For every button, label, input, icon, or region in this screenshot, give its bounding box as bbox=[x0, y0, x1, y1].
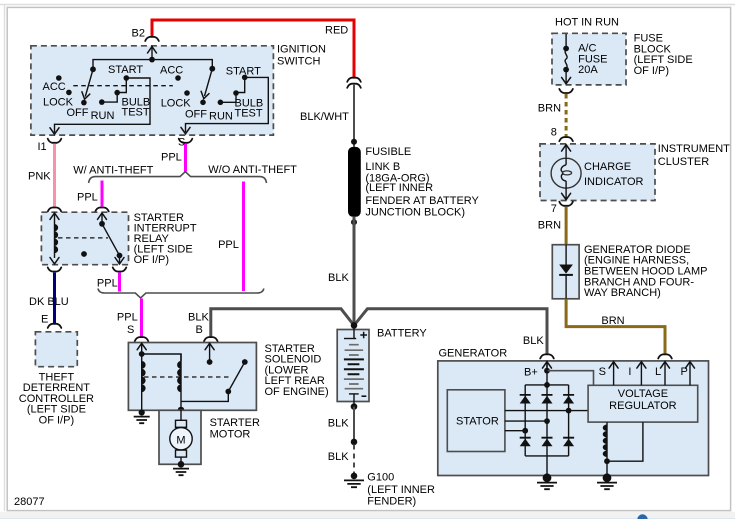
wire DK BLU bbox=[53, 273, 56, 324]
charge indicator lamp bbox=[551, 158, 581, 188]
solenoid hold-in winding coil bbox=[141, 354, 143, 410]
regulator terminal arrows S I L P bbox=[613, 362, 615, 385]
field coil bbox=[606, 422, 608, 478]
rectifier bridge frame bbox=[525, 362, 568, 478]
battery plates bbox=[345, 345, 364, 355]
svg-text:STARTER: STARTER bbox=[210, 417, 260, 429]
connector cup below fuse block bbox=[559, 89, 573, 93]
wire to left wiper bbox=[93, 60, 152, 70]
node bridge ground bbox=[543, 473, 552, 482]
svg-text:OFF: OFF bbox=[67, 107, 89, 119]
motor armature M bbox=[170, 428, 192, 450]
node B2 junction bbox=[149, 57, 155, 63]
node bridge top bbox=[544, 382, 550, 388]
solenoid pull-in winding lead bbox=[142, 354, 181, 361]
relay switch arm bbox=[102, 224, 120, 256]
field coil return wire bbox=[607, 422, 643, 461]
svg-text:SWITCH: SWITCH bbox=[277, 56, 320, 68]
instrument cluster box bbox=[540, 144, 655, 201]
solenoid switch contact bbox=[242, 359, 248, 365]
svg-text:E: E bbox=[41, 314, 48, 326]
svg-text:PPL: PPL bbox=[117, 312, 138, 324]
right wiper arm bbox=[205, 69, 213, 96]
ground G100 bbox=[351, 473, 358, 480]
motor brush top bbox=[176, 420, 187, 427]
svg-text:BRN: BRN bbox=[538, 103, 561, 115]
battery plus sign bbox=[360, 332, 367, 339]
connector cup at S bbox=[179, 139, 193, 143]
svg-text:DK BLU: DK BLU bbox=[29, 296, 69, 308]
svg-text:CLUSTER: CLUSTER bbox=[658, 156, 709, 168]
right bulb-test wiring bbox=[220, 93, 236, 102]
connector hat into relay PNK bbox=[48, 208, 62, 212]
wire BLK/WHT bbox=[353, 84, 355, 147]
node field ground bbox=[603, 473, 612, 482]
battery minus sign bbox=[362, 395, 367, 397]
left start output wire bbox=[55, 78, 151, 133]
svg-text:G100: G100 bbox=[367, 471, 394, 483]
relay coil entry arrow bbox=[54, 213, 56, 258]
svg-text:RUN: RUN bbox=[91, 110, 115, 122]
svg-text:INDICATOR: INDICATOR bbox=[584, 176, 644, 188]
svg-text:B: B bbox=[196, 324, 203, 336]
battery box bbox=[337, 330, 369, 402]
connector cup below cluster bbox=[559, 202, 573, 206]
ground under rectifier bbox=[537, 483, 557, 490]
svg-text:P: P bbox=[681, 366, 688, 378]
svg-text:L: L bbox=[655, 366, 661, 378]
svg-text:OF ENGINE): OF ENGINE) bbox=[265, 386, 329, 398]
relay spare contact bbox=[81, 251, 87, 257]
relay switch exit arrow bbox=[119, 256, 121, 264]
svg-text:GENERATOR: GENERATOR bbox=[439, 348, 508, 360]
cluster exit arrow bbox=[562, 193, 571, 199]
svg-text:BLK: BLK bbox=[328, 272, 349, 284]
node fusible link top bbox=[351, 139, 357, 145]
svg-text:PPL: PPL bbox=[161, 152, 182, 164]
svg-text:RED: RED bbox=[325, 25, 348, 37]
starter motor box bbox=[159, 410, 201, 464]
svg-text:M: M bbox=[176, 435, 185, 447]
svg-text:MOTOR: MOTOR bbox=[210, 429, 251, 441]
svg-text:8: 8 bbox=[551, 126, 557, 138]
theft deterrent controller box bbox=[35, 332, 77, 367]
relay linkage dashed bbox=[58, 237, 108, 239]
svg-text:REGULATOR: REGULATOR bbox=[609, 400, 676, 412]
wire BLK dashed to G100 bbox=[353, 445, 355, 474]
ground under field coil bbox=[597, 483, 617, 490]
svg-text:STATOR: STATOR bbox=[456, 416, 499, 428]
node battery negative bbox=[351, 403, 358, 410]
svg-text:FENDER AT BATTERY: FENDER AT BATTERY bbox=[365, 195, 479, 207]
toolbar blue icon (partial) bbox=[637, 514, 647, 519]
battery negative terminal bbox=[349, 393, 359, 395]
wire PPL to solenoid S bbox=[140, 299, 143, 337]
svg-text:OFF: OFF bbox=[185, 109, 207, 121]
right contacts bbox=[175, 75, 181, 81]
wire BLK battery to splice bbox=[353, 407, 355, 442]
wire B+ to regulator bbox=[547, 371, 594, 386]
svg-text:I1: I1 bbox=[38, 141, 47, 153]
wire to right wiper bbox=[152, 60, 212, 69]
solenoid B contact bbox=[207, 359, 213, 365]
svg-text:W/O ANTI-THEFT: W/O ANTI-THEFT bbox=[208, 164, 297, 176]
solenoid linkage dashed bbox=[144, 376, 232, 378]
svg-text:VOLTAGE: VOLTAGE bbox=[618, 388, 668, 400]
left contacts bbox=[56, 75, 62, 81]
connector hat generator L bbox=[658, 354, 672, 358]
relay switch entry arrow bbox=[101, 213, 103, 224]
solenoid B entry arrow bbox=[209, 343, 211, 362]
wire PPL from S bbox=[184, 144, 187, 172]
stator box bbox=[447, 390, 505, 452]
right start output wire bbox=[186, 77, 269, 132]
svg-text:OF I/P): OF I/P) bbox=[634, 65, 669, 77]
svg-text:IGNITION: IGNITION bbox=[277, 44, 326, 56]
solenoid switch output wire bbox=[181, 392, 228, 402]
rectifier diodes bottom row bbox=[520, 439, 574, 447]
motor feed wire bbox=[180, 410, 182, 421]
starter interrupt relay box bbox=[41, 212, 128, 265]
wire BRN dashed fuse to cluster bbox=[565, 94, 568, 137]
solenoid pull-in winding coil bbox=[180, 354, 182, 410]
solenoid S entry arrow bbox=[141, 343, 143, 354]
svg-text:START: START bbox=[226, 66, 261, 78]
fuse A/C 20A element bbox=[565, 34, 567, 49]
svg-text:CHARGE: CHARGE bbox=[584, 161, 631, 173]
solenoid coil ground stub bbox=[141, 410, 143, 412]
connector cup below relay left bbox=[48, 267, 62, 271]
svg-text:(LEFT INNER: (LEFT INNER bbox=[365, 182, 433, 194]
svg-text:BRN: BRN bbox=[601, 315, 624, 327]
svg-text:PPL: PPL bbox=[218, 239, 239, 251]
wire PNK bbox=[53, 144, 56, 207]
ground under solenoid bbox=[134, 417, 150, 424]
svg-text:FUSIBLE: FUSIBLE bbox=[365, 146, 411, 158]
inline connector RED to BLK/WHT bbox=[347, 78, 361, 82]
svg-text:BLK: BLK bbox=[328, 418, 349, 430]
ignition switch box bbox=[31, 46, 274, 135]
node fusible link bottom bbox=[351, 219, 357, 225]
svg-text:S: S bbox=[127, 324, 134, 336]
connector cup below relay right bbox=[113, 267, 127, 271]
fusible link B element bbox=[348, 147, 361, 217]
wire BLK from battery bus to solenoid B bbox=[211, 309, 547, 354]
svg-text:START: START bbox=[108, 64, 143, 76]
node B+ bbox=[544, 368, 550, 374]
svg-text:TEST: TEST bbox=[122, 107, 150, 119]
svg-text:LINK B: LINK B bbox=[365, 161, 400, 173]
svg-text:B+: B+ bbox=[524, 367, 538, 379]
brace merge to solenoid S bbox=[98, 289, 264, 298]
wire PPL with anti-theft branch bbox=[101, 181, 104, 207]
rectifier diodes top row bbox=[520, 396, 574, 404]
solenoid switch arm bbox=[228, 362, 245, 392]
svg-text:ACC: ACC bbox=[160, 65, 183, 77]
wire PPL without anti-theft branch bbox=[242, 182, 245, 292]
svg-text:28077: 28077 bbox=[14, 496, 45, 508]
node solenoid output bbox=[178, 407, 185, 414]
svg-text:7: 7 bbox=[551, 203, 557, 215]
wire BLK fusible link to battery bbox=[353, 217, 356, 326]
generator diode box bbox=[552, 245, 579, 299]
connector hat solenoid B bbox=[204, 337, 218, 341]
svg-text:FENDER): FENDER) bbox=[367, 496, 416, 508]
connector cup at I1 bbox=[48, 139, 62, 143]
svg-text:TEST: TEST bbox=[235, 108, 263, 120]
svg-text:RUN: RUN bbox=[209, 111, 233, 123]
svg-text:I: I bbox=[628, 366, 631, 378]
cluster entry arrow bbox=[565, 145, 567, 159]
svg-text:B2: B2 bbox=[132, 28, 145, 40]
battery positive terminal bbox=[353, 325, 355, 338]
wire BRN cluster to diode bbox=[565, 207, 568, 245]
svg-text:S: S bbox=[599, 366, 606, 378]
svg-text:W/ ANTI-THEFT: W/ ANTI-THEFT bbox=[73, 164, 153, 176]
node field coil bbox=[604, 458, 610, 464]
generator B+ entry arrow bbox=[546, 362, 548, 371]
mechanical linkage dashed bbox=[73, 85, 173, 87]
node solenoid windings junction bbox=[139, 351, 145, 357]
svg-text:BRN: BRN bbox=[538, 220, 561, 232]
left wiper pivot bbox=[90, 66, 96, 72]
svg-text:20A: 20A bbox=[578, 64, 598, 76]
connector hat generator B+ bbox=[540, 354, 554, 358]
node battery positive junction bbox=[351, 322, 358, 329]
relay coil exit arrow bbox=[50, 258, 59, 264]
relay coil bbox=[55, 224, 59, 253]
connector hat at B2 bbox=[145, 37, 159, 41]
svg-text:ACC: ACC bbox=[43, 81, 66, 93]
relay switch contact bbox=[99, 221, 105, 227]
svg-text:PPL: PPL bbox=[97, 278, 118, 290]
svg-text:JUNCTION BLOCK): JUNCTION BLOCK) bbox=[365, 207, 465, 219]
connector hat into relay PPL bbox=[95, 208, 109, 212]
svg-text:WAY BRANCH): WAY BRANCH) bbox=[584, 287, 661, 299]
svg-text:BATTERY: BATTERY bbox=[377, 328, 427, 340]
stator leads bbox=[505, 410, 588, 412]
fuse block box bbox=[552, 33, 626, 85]
svg-text:(LEFT INNER: (LEFT INNER bbox=[367, 484, 435, 496]
wire PPL relay output bbox=[118, 273, 121, 292]
wire BRN diode to generator L bbox=[566, 299, 665, 354]
wire RED B2 feed bbox=[152, 20, 354, 77]
svg-text:BLK: BLK bbox=[523, 335, 544, 347]
svg-text:INSTRUMENT: INSTRUMENT bbox=[658, 143, 730, 155]
starter solenoid box bbox=[128, 343, 256, 411]
right wiper pivot bbox=[209, 66, 215, 72]
svg-text:BLK: BLK bbox=[328, 451, 349, 463]
brace anti-theft split bbox=[89, 172, 267, 183]
ground under starter motor bbox=[173, 469, 189, 476]
svg-text:OF I/P): OF I/P) bbox=[39, 415, 74, 427]
svg-text:HOT IN RUN: HOT IN RUN bbox=[555, 17, 619, 29]
motor ground wire bbox=[180, 457, 182, 464]
motor brush bottom bbox=[176, 450, 187, 457]
svg-text:PNK: PNK bbox=[28, 171, 51, 183]
left bulb-test wiring bbox=[102, 93, 117, 103]
svg-text:PPL: PPL bbox=[77, 192, 98, 204]
node splice bbox=[351, 439, 358, 446]
generator box bbox=[438, 361, 709, 476]
connector hat solenoid S bbox=[135, 337, 149, 341]
B2 entry arrow bbox=[151, 47, 153, 60]
svg-text:BLK/WHT: BLK/WHT bbox=[300, 111, 349, 123]
voltage regulator box bbox=[588, 385, 698, 422]
left wiper arm bbox=[85, 69, 93, 96]
svg-text:OF I/P): OF I/P) bbox=[134, 254, 169, 266]
svg-text:BLK: BLK bbox=[188, 312, 209, 324]
connector hat at E bbox=[48, 324, 62, 328]
diode element bbox=[565, 245, 567, 265]
connector hat into cluster bbox=[559, 137, 573, 141]
